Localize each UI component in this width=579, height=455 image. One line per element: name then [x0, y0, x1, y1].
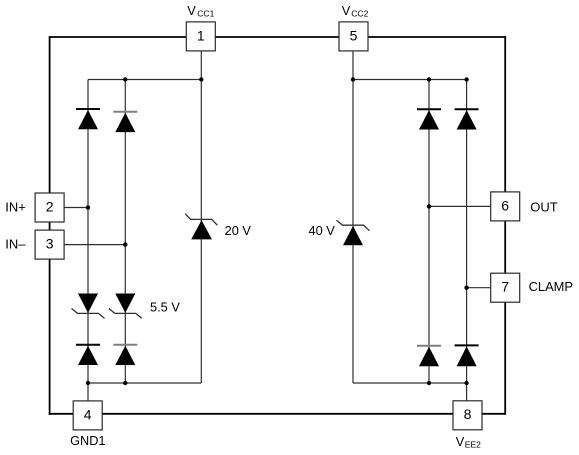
svg-text:IN–: IN– — [5, 236, 26, 251]
pin 5 box — [339, 22, 368, 51]
pin 6 box — [491, 192, 520, 221]
svg-text:7: 7 — [501, 279, 509, 295]
wire: branch from pin 1 down to 20V zener and lower-left rail — [200, 51, 202, 383]
svg-text:V: V — [187, 3, 196, 18]
wire: outer boundary bottom edge segments — [49, 413, 506, 415]
diode D5 (column A bottom, cathode up) — [76, 345, 100, 365]
svg-text:6: 6 — [501, 197, 509, 213]
junction: column B / lower-left rail — [123, 381, 127, 385]
junction: pin-1 branch / upper-left rail — [199, 77, 203, 81]
svg-text:1: 1 — [197, 27, 205, 43]
junction: column A / lower-left rail — [86, 381, 90, 385]
wire: column A vertical (pin 2 / pin 4 branch) — [87, 80, 89, 401]
pin 1 box — [186, 22, 215, 51]
svg-text:5.5 V: 5.5 V — [150, 299, 180, 314]
junction: column C / upper-right rail — [427, 77, 431, 81]
junction: column D / upper-right rail — [464, 77, 468, 81]
svg-text:EE2: EE2 — [465, 439, 481, 449]
svg-text:4: 4 — [84, 406, 92, 422]
svg-text:CC2: CC2 — [351, 8, 368, 18]
pin 2 box — [35, 193, 64, 222]
svg-text:20 V: 20 V — [225, 223, 252, 238]
wire: branch from pin 5 down to 40V zener and lower-right rail — [352, 51, 354, 383]
net label VCC2 — [342, 3, 369, 18]
wire: pin 3 to column B — [64, 244, 125, 246]
wire: pin 6 to column C — [429, 205, 491, 207]
diode D2 (column B top, cathode up) — [113, 112, 137, 132]
wire: outer boundary right edge segments — [504, 36, 506, 415]
diode D4 (column D top, cathode up) — [455, 109, 479, 129]
zener Z1 20V (pin 1 branch, cathode up) — [185, 214, 217, 240]
wire: column D vertical (pin 7 / pin 8 branch) — [466, 80, 468, 401]
junction: pin 7 wire / column D — [464, 286, 468, 290]
wire: pin 2 to column A — [64, 207, 88, 209]
zener Z4 5.5V (column B, cathode down) — [109, 294, 142, 319]
svg-text:2: 2 — [46, 198, 54, 214]
zener Z2 40V (pin 5 branch, cathode up) — [337, 220, 370, 245]
svg-text:40 V: 40 V — [309, 223, 336, 238]
svg-text:V: V — [342, 3, 351, 18]
svg-text:IN+: IN+ — [5, 200, 26, 215]
wire: upper-right rail — [353, 79, 467, 81]
svg-text:CC1: CC1 — [197, 8, 214, 18]
pin 3 box — [35, 230, 64, 259]
wire: outer boundary top edge segments — [50, 36, 506, 38]
wire: lower-right rail — [353, 382, 467, 384]
wire: upper-left rail — [88, 79, 201, 81]
junction: column D / lower-right rail — [464, 381, 468, 385]
net label VCC1 — [187, 3, 214, 18]
junction: column C / lower-right rail — [427, 381, 431, 385]
diode D3 (column C top, cathode up) — [417, 109, 441, 129]
diode D8 (column D bottom, cathode up) — [455, 345, 479, 366]
svg-text:8: 8 — [464, 406, 472, 422]
diode D6 (column B bottom, cathode up) — [113, 345, 137, 365]
svg-text:OUT: OUT — [530, 200, 558, 215]
wire: outer boundary left edge segments — [49, 36, 51, 415]
svg-text:3: 3 — [46, 236, 54, 252]
junction: pin 6 wire / column C — [427, 204, 431, 208]
zener Z3 5.5V (column A, cathode down) — [72, 294, 105, 319]
svg-text:V: V — [456, 434, 465, 449]
junction: pin 3 wire / column B — [123, 242, 127, 246]
wire: column C vertical (pin 6 branch) — [428, 80, 430, 384]
diode D1 (column A top, cathode up) — [76, 109, 100, 129]
svg-text:CLAMP: CLAMP — [529, 279, 573, 294]
svg-text:GND1: GND1 — [70, 434, 105, 448]
wire: lower-left rail — [88, 382, 201, 384]
wire: column B vertical (pin 3 branch) — [124, 80, 126, 384]
pin 4 box — [73, 401, 102, 430]
junction: pin 2 wire / column A — [86, 205, 90, 209]
diode D7 (column C bottom, cathode up) — [417, 346, 441, 366]
pin 8 box — [453, 401, 482, 430]
pin 7 box — [491, 273, 520, 302]
junction: column B / upper-left rail — [123, 77, 127, 81]
junction: pin-5 branch / upper-right rail — [351, 77, 355, 81]
wire: pin 7 to column D — [467, 287, 491, 289]
svg-text:5: 5 — [350, 27, 358, 43]
net label VEE2 — [456, 434, 481, 449]
